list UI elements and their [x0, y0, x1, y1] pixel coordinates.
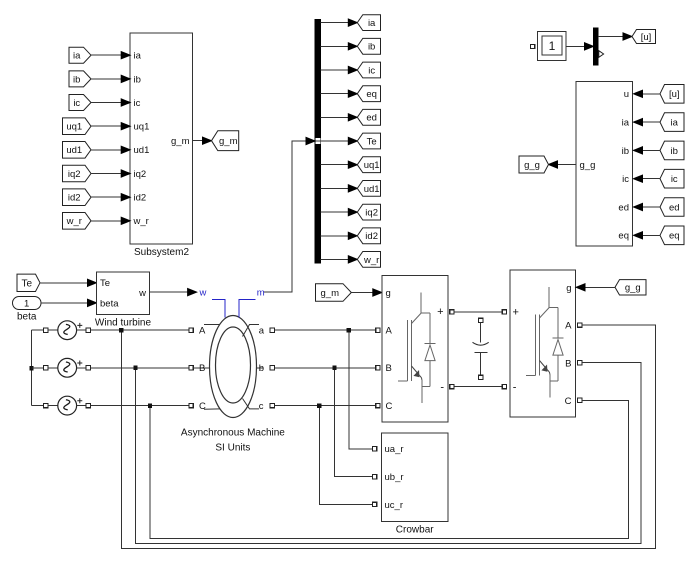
wire ud1 to Subsystem2	[91, 149, 122, 151]
wire eq to g_g block	[642, 234, 660, 236]
goto tag id2	[357, 228, 380, 244]
port square machine C	[189, 403, 193, 407]
wire [u] to g_g block	[642, 93, 660, 95]
junction on neutral bus	[29, 366, 33, 370]
wire demux out ib	[321, 45, 349, 47]
port square dc- right	[502, 384, 506, 388]
svg-text:id2: id2	[68, 193, 81, 204]
stub c	[243, 399, 260, 409]
svg-text:iq2: iq2	[365, 208, 378, 219]
svg-text:b: b	[259, 363, 264, 374]
blue m elbow	[239, 300, 256, 318]
svg-text:uc_r: uc_r	[385, 500, 403, 511]
from tag ib	[69, 71, 91, 87]
wire Te to Wind turbine	[40, 282, 88, 284]
from tag w_r	[63, 213, 92, 230]
svg-text:m: m	[257, 288, 265, 299]
machine inner ellipse (rotor)	[216, 327, 251, 403]
svg-text:ud1: ud1	[66, 145, 82, 156]
port square machine B	[189, 366, 193, 370]
converter 1 IGBT/diode icon	[420, 293, 422, 313]
wire g_m to converter1 g	[351, 292, 373, 294]
unconnected output arrow of demux2	[599, 51, 604, 58]
wire id2 to Subsystem2	[91, 196, 122, 198]
svg-text:uq1: uq1	[66, 122, 82, 133]
svg-text:beta: beta	[100, 298, 119, 309]
goto tag Te	[357, 133, 380, 149]
stub B	[193, 367, 210, 369]
svg-text:[u]: [u]	[641, 32, 652, 43]
junction rotor c	[317, 403, 321, 407]
svg-text:id2: id2	[134, 193, 147, 204]
svg-text:ua_r: ua_r	[385, 444, 404, 455]
svg-text:ib: ib	[134, 74, 141, 85]
svg-text:eq: eq	[366, 89, 377, 100]
from tag [u] (flipped)	[660, 85, 684, 104]
svg-text:ed: ed	[366, 113, 377, 124]
junction rotor b	[332, 366, 336, 370]
svg-text:c: c	[259, 401, 264, 412]
stub a	[243, 325, 260, 337]
from tag ud1	[63, 142, 92, 159]
junction stator A	[119, 328, 123, 332]
unconnected port marker	[531, 44, 535, 48]
svg-text:Te: Te	[100, 278, 110, 289]
port square machine c	[270, 403, 274, 407]
wire m to demux	[264, 141, 307, 292]
wire into source 1	[48, 329, 58, 331]
svg-text:Subsystem2: Subsystem2	[134, 247, 189, 258]
svg-text:g_g: g_g	[625, 283, 641, 294]
wire demux out uq1	[321, 164, 349, 166]
svg-text:B: B	[199, 363, 205, 374]
from tag Te	[17, 274, 40, 291]
svg-text:w: w	[199, 288, 207, 299]
port square crowbar ua_r	[372, 447, 376, 451]
wire source to machine C	[90, 405, 188, 407]
goto tag ia	[357, 15, 380, 31]
goto tag ic	[357, 62, 380, 78]
from tag g_m	[316, 284, 352, 302]
port square crowbar ub_r	[372, 475, 376, 479]
AC voltage source 1	[58, 321, 77, 340]
wire rotor c to crowbar	[319, 408, 372, 505]
svg-text:w_r: w_r	[133, 216, 149, 227]
port square dc+ right	[502, 310, 506, 314]
svg-text:B: B	[565, 358, 571, 369]
svg-text:ia: ia	[622, 118, 630, 129]
port square converter2 C	[578, 398, 582, 402]
svg-text:C: C	[199, 401, 206, 412]
svg-text:w: w	[138, 288, 146, 299]
port square converter2 B	[578, 361, 582, 365]
from tag ia (flipped)	[660, 113, 684, 132]
svg-text:iq2: iq2	[68, 169, 81, 180]
svg-text:SI Units: SI Units	[215, 443, 250, 454]
svg-text:ic: ic	[368, 65, 375, 76]
from tag id2	[63, 189, 92, 206]
svg-text:ed: ed	[618, 202, 629, 213]
wire dc plus	[454, 311, 502, 313]
subsystem U1 Subsystem2 block	[130, 33, 192, 244]
svg-text:g_g: g_g	[524, 160, 540, 171]
capacitor port bottom	[479, 375, 483, 379]
port square dc- left	[450, 384, 454, 388]
wire iq2 to Subsystem2	[91, 173, 122, 175]
wire uq1 to Subsystem2	[91, 125, 122, 127]
port square converter1 A	[376, 328, 380, 332]
svg-text:ic: ic	[671, 174, 678, 185]
port square converter2 A	[578, 323, 582, 327]
svg-text:-: -	[440, 382, 444, 394]
from tag ia	[69, 47, 91, 63]
wire demux out Te	[321, 140, 349, 142]
wire bus to source 2	[32, 367, 44, 369]
wire converter2 B feedback	[136, 363, 642, 544]
AC voltage source 2	[58, 358, 77, 377]
wire w to machine	[150, 291, 190, 293]
svg-text:ia: ia	[73, 51, 81, 62]
wire rotor a to crowbar	[349, 332, 372, 448]
universal bridge converter 1 block	[382, 276, 448, 423]
capacitor C dc-link	[480, 323, 482, 343]
svg-text:ic: ic	[622, 174, 629, 185]
goto tag uq1	[357, 157, 380, 173]
wire demux out w_r	[321, 258, 349, 260]
svg-text:ub_r: ub_r	[385, 472, 404, 483]
port square dc+ left	[450, 310, 454, 314]
port square machine A	[189, 328, 193, 332]
svg-text:ic: ic	[134, 98, 141, 109]
wire ib to g_g block	[642, 149, 660, 151]
svg-text:g: g	[566, 283, 571, 294]
wire out of source 2	[77, 367, 86, 369]
svg-text:1: 1	[549, 39, 556, 53]
svg-text:ud1: ud1	[364, 184, 380, 195]
port square source 2 right	[86, 366, 90, 370]
svg-text:A: A	[386, 326, 393, 337]
blue w elbow	[212, 300, 225, 318]
goto tag ud1	[357, 181, 380, 197]
goto tag g_m	[212, 131, 239, 151]
subsystem U2 g_g block (flipped)	[576, 82, 633, 247]
junction stator B	[133, 366, 137, 370]
port square machine a	[270, 328, 274, 332]
svg-text:Te: Te	[21, 278, 32, 289]
from tag iq2	[63, 165, 92, 182]
wire dc minus	[454, 386, 502, 388]
svg-text:ib: ib	[622, 146, 629, 157]
port square source 3 right	[86, 403, 90, 407]
svg-text:g_m: g_m	[171, 136, 190, 147]
from tag ib (flipped)	[660, 141, 684, 160]
goto tag ib	[357, 38, 380, 54]
from tag ic	[69, 95, 91, 111]
demux bar small (top right)	[594, 28, 599, 65]
port square source 1 left	[43, 328, 47, 332]
svg-text:g_g: g_g	[580, 160, 596, 171]
svg-text:ia: ia	[134, 51, 142, 62]
svg-text:Crowbar: Crowbar	[396, 525, 434, 536]
demux bar (machine measurement demux)	[315, 19, 321, 263]
wire g_g to converter2 g	[584, 286, 615, 288]
svg-text:uq1: uq1	[134, 122, 150, 133]
svg-text:+: +	[513, 306, 519, 318]
port square source 1 right	[86, 328, 90, 332]
svg-text:+: +	[437, 306, 443, 318]
wire demux out ia	[321, 22, 349, 24]
wire ib to Subsystem2	[91, 78, 122, 80]
from tag ic (flipped)	[660, 169, 684, 188]
wire rotor b to converter	[275, 367, 376, 369]
goto tag eq	[357, 86, 380, 102]
wire source to machine A	[90, 329, 188, 331]
stub C	[204, 408, 220, 410]
wire demux2 to [u]	[598, 36, 624, 38]
capacitor port top	[479, 318, 483, 322]
wire ed to g_g block	[642, 206, 660, 208]
port square machine b	[270, 366, 274, 370]
svg-text:uq1: uq1	[364, 160, 380, 171]
from tag ed (flipped)	[660, 198, 684, 217]
junction rotor a	[347, 328, 351, 332]
svg-text:ia: ia	[368, 18, 376, 29]
wire demux out ic	[321, 69, 349, 71]
goto tag g_g (flipped)	[519, 156, 549, 173]
goto tag iq2	[357, 204, 380, 220]
port square source 2 left	[43, 366, 47, 370]
svg-text:eq: eq	[669, 231, 680, 242]
svg-text:ed: ed	[669, 202, 680, 213]
svg-text:C: C	[565, 396, 572, 407]
svg-text:u: u	[624, 89, 629, 100]
svg-text:beta: beta	[17, 312, 37, 323]
wire demux out eq	[321, 93, 349, 95]
svg-text:B: B	[386, 363, 392, 374]
wire rotor b to crowbar	[335, 370, 373, 477]
wire constant to demux2	[566, 45, 586, 47]
constant beta (value 1)	[13, 297, 42, 310]
svg-text:iq2: iq2	[134, 169, 147, 180]
wire out of source 3	[77, 405, 86, 407]
svg-text:Wind turbine: Wind turbine	[95, 318, 152, 329]
svg-text:ib: ib	[73, 74, 80, 85]
port square converter1 C	[376, 403, 380, 407]
svg-text:[u]: [u]	[669, 89, 680, 100]
wire out of source 1	[77, 329, 86, 331]
constant block 1 (double border)	[538, 32, 567, 61]
port square crowbar uc_r	[372, 502, 376, 506]
svg-text:a: a	[259, 325, 265, 336]
wire source neutral bus	[31, 330, 33, 406]
svg-text:w_r: w_r	[66, 216, 82, 227]
svg-text:1: 1	[24, 299, 29, 310]
svg-text:g_m: g_m	[219, 136, 238, 147]
wire ia to g_g block	[642, 121, 660, 123]
wire rotor c to converter	[275, 405, 376, 407]
AC voltage source 3	[58, 396, 77, 415]
svg-text:A: A	[565, 321, 572, 332]
svg-text:ib: ib	[671, 146, 678, 157]
port square source 3 left	[43, 403, 47, 407]
svg-text:g: g	[386, 288, 391, 299]
wire converter2 A feedback	[121, 325, 655, 548]
svg-text:Asynchronous Machine: Asynchronous Machine	[181, 428, 285, 439]
wire g_g output	[556, 164, 576, 166]
goto tag ed	[357, 109, 380, 125]
wire demux out ud1	[321, 187, 349, 189]
stub A	[204, 324, 220, 326]
goto tag [u]	[632, 30, 656, 44]
svg-text:-: -	[513, 382, 517, 394]
wire demux out ed	[321, 116, 349, 118]
wire bus to source 1	[32, 329, 44, 331]
wire ic to g_g block	[642, 178, 660, 180]
svg-text:ia: ia	[671, 118, 679, 129]
wire into source 3	[48, 405, 58, 407]
block Wind turbine	[97, 272, 150, 315]
wire into source 2	[48, 367, 58, 369]
machine outer ellipse (stator)	[210, 316, 257, 418]
wire ic to Subsystem2	[91, 102, 122, 104]
svg-text:w_r: w_r	[363, 255, 379, 266]
svg-text:ud1: ud1	[134, 145, 150, 156]
converter 2 IGBT/diode icon	[548, 287, 550, 307]
wire converter2 C feedback	[150, 400, 629, 538]
wire bus to source 3	[32, 405, 44, 407]
svg-text:ic: ic	[73, 98, 80, 109]
stub b	[256, 367, 263, 369]
wire demux out id2	[321, 235, 349, 237]
svg-text:C: C	[386, 401, 393, 412]
block Crowbar	[382, 433, 449, 522]
wire g_m output of Subsystem2	[193, 140, 203, 142]
from tag uq1	[63, 118, 92, 135]
from tag g_g (flipped)	[615, 280, 646, 295]
svg-text:ib: ib	[368, 42, 375, 53]
svg-text:A: A	[199, 326, 206, 337]
wire beta to Wind turbine	[41, 302, 88, 304]
svg-text:g_m: g_m	[321, 288, 340, 299]
wire source to machine B	[90, 367, 188, 369]
from tag eq (flipped)	[660, 226, 684, 245]
svg-text:Te: Te	[367, 136, 377, 147]
demux input port marker	[315, 138, 320, 144]
svg-text:id2: id2	[365, 231, 378, 242]
junction stator C	[148, 403, 152, 407]
port square converter1 B	[376, 366, 380, 370]
wire rotor a to converter	[275, 329, 376, 331]
goto tag w_r	[357, 252, 380, 268]
svg-text:eq: eq	[618, 231, 629, 242]
universal bridge converter 2 block	[510, 270, 576, 417]
wire demux out iq2	[321, 211, 349, 213]
wire w_r to Subsystem2	[91, 220, 122, 222]
wire ia to Subsystem2	[91, 54, 122, 56]
